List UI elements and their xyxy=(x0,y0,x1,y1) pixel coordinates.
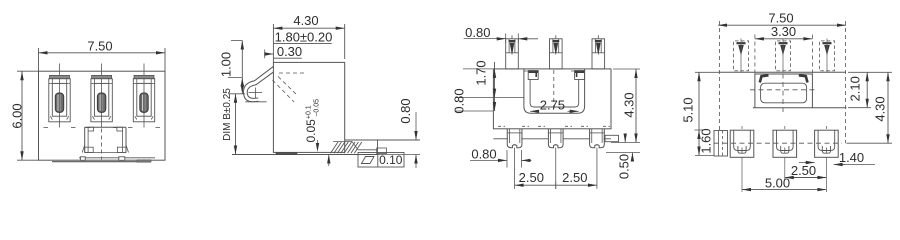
view 3: dimension 0.80 bottom right arrow xyxy=(521,159,531,161)
view 3: dimension 0.80 top shelf xyxy=(464,38,506,40)
view 4: knob right corner chevron xyxy=(799,75,808,82)
view 4: dimension 4.30 line with arrows xyxy=(887,72,889,143)
view 4: top stub 3 centerline xyxy=(826,39,828,73)
view 2: terminal top line xyxy=(345,139,420,141)
view 4: top stub 1 hidden outline xyxy=(734,41,749,71)
view 1: contact 3 bottom corner marks xyxy=(135,116,137,119)
view 4: top stub 1 contact mark xyxy=(737,42,746,44)
view 1: contact 1 bottom corner marks xyxy=(50,116,52,119)
view 4: knob horizontal dashed centerline xyxy=(750,89,817,91)
view 2: dimension 0.80 line with arrows xyxy=(415,112,417,140)
view 2: terminal bend hatch xyxy=(333,141,352,143)
view 2: seating plane line xyxy=(232,154,378,156)
view 3: dimension 0.80 top ticks xyxy=(505,34,507,44)
view 1: contact 2 hidden edge dashes xyxy=(86,127,91,129)
svg-text:2.10: 2.10 xyxy=(848,76,863,101)
svg-text:2.50: 2.50 xyxy=(562,170,587,185)
view 1: contact 1 inner rectangle xyxy=(52,83,66,116)
view 1: contact 2 bottom corner marks xyxy=(92,116,94,119)
view 2: 0.30 leader arrow xyxy=(264,50,266,59)
view 4: bottom terminal 2 inner U xyxy=(777,130,794,150)
view 2: flatness parallelogram symbol xyxy=(362,157,375,164)
view 3: slot right corner block xyxy=(575,71,585,80)
view 1: right foot xyxy=(119,157,125,161)
view 1: contact 1 outer rectangle xyxy=(49,79,70,122)
view 3: bottom terminal 2 centerline xyxy=(555,148,557,189)
view 2: hidden diagonal dashes xyxy=(273,80,295,102)
view 4: bottom terminal 1 centerline xyxy=(741,126,743,130)
view 2: spring contact hook outer curve xyxy=(244,66,274,102)
view 2: dimension 4.30 line with arrows xyxy=(273,27,344,29)
view 2: dimension 1.00 line with arrows xyxy=(231,40,242,42)
view 2: terminal small rect on seating xyxy=(377,148,387,154)
view 2: flatness feature control frame xyxy=(358,153,404,168)
view 4: dimension 5.10 line with arrows xyxy=(698,72,700,155)
view 2: 0.05 leader arrow lower xyxy=(328,155,330,167)
view 4: body bottom edge xyxy=(753,107,846,109)
view 3: slot outer outline xyxy=(524,69,585,113)
view 4: horizontal dashed line through terminals xyxy=(714,142,842,144)
svg-text:2.50: 2.50 xyxy=(519,170,544,185)
view 3: dimension 2.75 line with arrows xyxy=(530,110,539,112)
view 3: left chained dimension line xyxy=(494,62,496,111)
view 1: actuator base left wall xyxy=(84,127,86,152)
view 4: left clip outline xyxy=(714,131,728,157)
view 3: bottom terminal 1 centerline xyxy=(514,148,516,189)
view 2: dimension 4.30 extension lines xyxy=(272,24,274,62)
view 3: slot left corner block xyxy=(528,71,538,80)
view 3: bottom terminal 2 outline xyxy=(548,129,563,148)
view 4: body top edge xyxy=(718,71,846,73)
view 3: base plate line segments xyxy=(493,138,508,140)
view 3: dimension 0.50 xyxy=(606,152,640,154)
view 3: slot centerline dashed xyxy=(553,70,555,107)
view 4: bottom terminal 3 outline xyxy=(815,130,839,157)
svg-text:4.30: 4.30 xyxy=(873,96,888,121)
view 4: 4.30 extension lines xyxy=(848,71,892,73)
view 1: contact 3 outer rectangle xyxy=(133,79,154,122)
view 1: dimension 6.00 line with arrows xyxy=(21,71,23,160)
view 4: top stub 3 contact mark xyxy=(823,42,832,44)
view 4: top stub 2 contact mark xyxy=(779,42,788,44)
view 1: contact 1 centerline xyxy=(59,64,61,128)
view 4: dimension 2.50 line with arrows xyxy=(785,177,827,179)
view 3: top terminal 3 centerline xyxy=(597,35,599,39)
view 3: bottom terminal 2 inner lines xyxy=(550,129,552,143)
view 3: top terminal 3 outline xyxy=(592,39,605,69)
view 4: bottom terminal 3 fork xyxy=(822,146,830,153)
svg-text:1.40: 1.40 xyxy=(839,150,864,165)
svg-text:0.80: 0.80 xyxy=(452,88,467,113)
svg-text:0.80: 0.80 xyxy=(465,25,490,40)
view 3: 4.30 extension lines xyxy=(613,68,640,70)
view 1: base plate lip below body xyxy=(52,161,151,163)
view 1: dimension 7.50 extension lines xyxy=(38,48,40,71)
view 3: top terminal 2 contact mark xyxy=(552,40,559,42)
view 1: contact 2 top band xyxy=(91,82,112,84)
view 3: top terminal 2 outline xyxy=(550,39,563,69)
view 1: actuator base top edge xyxy=(85,126,126,128)
svg-text:1.00: 1.00 xyxy=(219,52,234,77)
view 2: hook center cross xyxy=(249,92,263,94)
view 3: bottom terminal 3 outline xyxy=(590,129,605,148)
view 3: bottom terminal 1 inner lines xyxy=(508,129,510,143)
view 4: dimension 5.00 line with arrows xyxy=(742,189,826,191)
svg-text:1.80±0.20: 1.80±0.20 xyxy=(275,30,333,45)
view 3: bottom terminal 3 centerline xyxy=(596,148,598,189)
view 3: bottom terminal 1 outline xyxy=(507,129,522,148)
svg-text:2.50: 2.50 xyxy=(791,163,816,178)
view 1: contact 2 outer rectangle xyxy=(91,79,112,122)
svg-text:7.50: 7.50 xyxy=(87,39,112,54)
view 1: base plate right step block xyxy=(137,160,151,162)
view 1: base plate line xyxy=(79,157,155,159)
svg-text:5.00: 5.00 xyxy=(765,175,790,190)
view 1: contact 3 inner rectangle xyxy=(137,83,151,116)
view 4: bottom terminal 1 outline xyxy=(730,130,754,157)
view 3: top terminal 2 inner lines xyxy=(552,39,554,53)
view 1: contact 3 hidden edge dashes xyxy=(128,127,133,129)
view 4: bottom terminal 1 fork xyxy=(738,146,746,153)
view 4: top stub 2 hidden outline xyxy=(776,41,791,71)
view 4: top stub 3 hidden outline xyxy=(820,41,835,71)
view 4: knob outer outline xyxy=(755,74,813,108)
view 1: contact 1 barrel xyxy=(55,93,63,112)
view 1: contact 3 centerline xyxy=(143,64,145,128)
view 2: dimension DIM B line with arrows xyxy=(235,94,237,155)
view 1: actuator wall bottom blocks xyxy=(85,147,94,152)
svg-text:3.30: 3.30 xyxy=(771,24,796,39)
view 1: contact 2 centerline xyxy=(101,64,103,128)
view 4: body right hidden edge dashed xyxy=(844,21,846,143)
svg-text:1.70: 1.70 xyxy=(474,60,489,85)
view 1: dimension 6.00 extension lines xyxy=(17,70,39,72)
view 4: bottom terminal 2 centerline xyxy=(784,126,786,130)
view 1: actuator base right wall xyxy=(125,127,127,152)
view 1: actuator inner base line xyxy=(85,152,126,154)
svg-text:6.00: 6.00 xyxy=(10,103,25,128)
view 3: body outline xyxy=(493,69,611,129)
view 1: actuator lower flares xyxy=(82,145,85,153)
view 4: top stub 2 centerline xyxy=(782,39,784,73)
view 4: knob left corner chevron xyxy=(760,75,769,82)
view 4: top stub 1 centerline xyxy=(740,39,742,73)
svg-text:2.75: 2.75 xyxy=(540,97,565,112)
view 2: body outline xyxy=(273,62,344,152)
view 4: dimension 2.10 line with arrows xyxy=(866,72,868,107)
view 1: actuator centerline dashed xyxy=(101,129,103,160)
svg-text:4.30: 4.30 xyxy=(622,92,637,117)
view 4: dimension 7.50 line with arrows xyxy=(718,24,846,26)
view 3: top terminal 2 centerline xyxy=(555,35,557,39)
view 3: bottom right step rect xyxy=(605,135,619,141)
view 1: contact 3 top cap xyxy=(134,75,154,78)
view 1: contact 1 top band xyxy=(49,82,70,84)
view 2: spring contact hook inner curve xyxy=(247,72,274,99)
view 3: top terminal 3 inner lines xyxy=(594,39,596,53)
view 4: bottom terminal 3 inner U xyxy=(818,130,835,150)
view 4: 3.30 extension lines dashed xyxy=(754,35,756,74)
view 1: contact 2 barrel xyxy=(97,93,105,112)
view 3: dimension 0.80 bottom extension lines xyxy=(506,150,508,168)
svg-text:0.05+0.1−0.05: 0.05+0.1−0.05 xyxy=(304,99,321,143)
svg-text:0.80: 0.80 xyxy=(471,146,496,161)
view 3: dimension 0.80 top arrows xyxy=(497,37,506,40)
view 3: slot inner outline xyxy=(530,80,579,108)
view 3: top terminal 1 inner lines xyxy=(508,39,510,53)
view 2: hook bottom line xyxy=(245,101,266,103)
view 3: left dimension extension lines xyxy=(463,68,493,70)
svg-text:0.10: 0.10 xyxy=(379,153,403,167)
view 2: 0.05 leader arrow upper xyxy=(317,140,319,146)
view 3: hidden dashes above bottom edge xyxy=(498,125,505,127)
view 4: bottom terminal 1 inner U xyxy=(734,130,751,150)
view 2: body bottom contact strip xyxy=(276,153,297,155)
view 3: dimension 2.50 2.50 line xyxy=(515,184,597,186)
view 4: knob inner outline xyxy=(761,83,807,103)
view 4: bottom terminal 3 centerline xyxy=(825,126,827,130)
view 4: knob vertical dashed centerline xyxy=(782,74,784,113)
view 3: top terminal 1 outline xyxy=(506,39,519,69)
view 3: top terminal 1 contact mark xyxy=(509,40,516,42)
view 2: terminal end vertical xyxy=(377,140,379,155)
view 1: contact 3 barrel xyxy=(140,93,148,112)
view 4: 2.10 extension lines xyxy=(848,107,871,109)
view 4: 5.10 extension lines xyxy=(695,71,718,73)
view 3: top terminal 1 centerline xyxy=(511,35,513,39)
view 1: contact 1 hidden edge dashes xyxy=(44,127,49,129)
svg-text:1.60: 1.60 xyxy=(699,128,714,153)
view 1: contact 2 inner rectangle xyxy=(94,83,108,116)
view 4: left clip inner line xyxy=(718,131,720,157)
view 2: 0.80 extension line xyxy=(378,154,421,156)
svg-text:4.30: 4.30 xyxy=(293,13,318,28)
view 4: bottom terminal 2 fork xyxy=(781,146,789,153)
view 1: actuator corner blocks xyxy=(88,127,94,131)
view 1: contact 3 top band xyxy=(133,82,154,84)
view 3: dimension 4.30 line with arrows xyxy=(635,69,637,143)
svg-text:5.10: 5.10 xyxy=(681,97,696,122)
view 4: dimension 3.30 line with arrows xyxy=(755,38,813,40)
svg-text:0.50: 0.50 xyxy=(617,154,632,179)
view 3: hidden dashes below top edge xyxy=(524,70,535,72)
svg-text:DIM B±0.25: DIM B±0.25 xyxy=(222,88,233,141)
view 1: left foot xyxy=(80,157,85,161)
view 1: contact 2 top cap xyxy=(92,75,112,78)
view 3: top terminal 3 contact mark xyxy=(595,40,602,42)
view 4: 2.50 small leader arrow xyxy=(799,162,815,164)
view 2: hidden dash line top xyxy=(279,72,306,74)
svg-text:0.30: 0.30 xyxy=(277,44,302,59)
view 1: front view body outline xyxy=(39,71,166,160)
view 3: bottom terminal 3 inner lines xyxy=(591,129,593,143)
view 4: bottom terminal 2 outline xyxy=(773,130,797,157)
view 4: body left hidden edge dashed xyxy=(719,21,721,131)
svg-text:0.80: 0.80 xyxy=(398,98,413,123)
view 1: dimension 7.50 line with arrows xyxy=(39,52,166,54)
view 2: 1.00 extension lines xyxy=(228,77,242,79)
view 1: contact 1 top cap xyxy=(50,75,70,78)
